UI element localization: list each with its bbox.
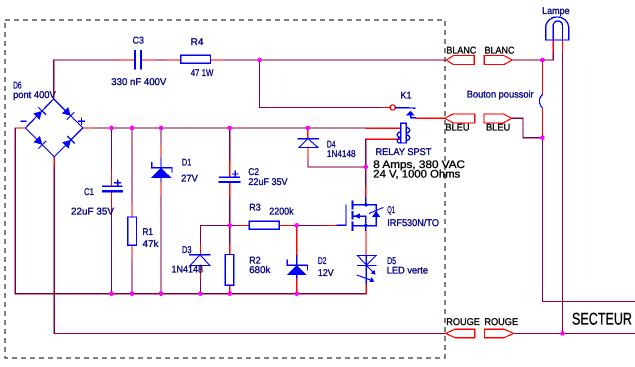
pin stub R4 left (167, 59, 181, 61)
svg-text:ROUGE: ROUGE (446, 317, 480, 328)
mosfet Q1 (337, 198, 383, 231)
LED D5 (357, 255, 377, 283)
pin stub D1 top (160, 146, 162, 158)
connector BLANC right (484, 56, 512, 65)
svg-text:12V: 12V (318, 268, 334, 279)
dashed enclosure border (5, 20, 445, 358)
bridge plus sign (79, 118, 85, 124)
wire lamp right pin down to ROUGE net (562, 52, 564, 333)
svg-text:Lampe: Lampe (542, 6, 570, 17)
capacitor C3 plates (135, 51, 141, 69)
svg-text:27V: 27V (181, 174, 198, 185)
wire D3 lower (199, 278, 201, 294)
push button arc (539, 95, 542, 108)
pin stub bridge top (53, 91, 55, 99)
svg-text:1N4148: 1N4148 (327, 149, 356, 160)
wire R1 branch lower (131, 259, 133, 294)
svg-text:BLANC: BLANC (485, 46, 515, 57)
wire relay bottom to Q1 drain (365, 139, 367, 186)
wire BLANC2 to lamp (511, 59, 553, 61)
bridge diode bottom-right (apex to right vertex) (62, 136, 74, 148)
zener diode D2 (287, 256, 308, 279)
pin stub D1 bottom (160, 182, 162, 196)
svg-text:1N4148: 1N4148 (172, 265, 204, 276)
pin stub C1 top (111, 170, 113, 186)
bridge diode bottom-left (apex to bottom vertex) (33, 136, 45, 148)
svg-text:2200k: 2200k (269, 206, 293, 217)
pin stub D4 top (307, 128, 309, 139)
svg-text:D3: D3 (182, 245, 192, 256)
svg-text:22uF 35V: 22uF 35V (248, 177, 288, 188)
pin stub R2 top (229, 246, 231, 255)
pin stub lamp right (562, 40, 564, 52)
pin stub Q1 source to D5 (365, 231, 367, 256)
pin stub Q1 gate (327, 224, 337, 226)
wire top net: bridge top to C3 (54, 60, 122, 91)
pin stub R3 left (239, 224, 250, 226)
bridge diode top-right (apex to right vertex) (62, 107, 74, 119)
zener diode D1 (151, 158, 172, 182)
svg-text:RELAY SPST: RELAY SPST (376, 147, 432, 158)
pin stub relay top (366, 127, 401, 129)
svg-text:LED verte: LED verte (387, 265, 428, 276)
junction rail R2 (227, 291, 232, 296)
resistor R2 box (225, 255, 234, 286)
wire lamp left pin lower (552, 52, 554, 60)
resistor R1 box (128, 217, 137, 245)
pin stub D4 bottom (307, 147, 309, 158)
junction bus C1 (109, 126, 114, 131)
junction rail D3 (198, 291, 203, 296)
pin stub R3 right (279, 224, 292, 226)
svg-text:D2: D2 (318, 256, 327, 267)
pin stub D2 bottom (296, 277, 298, 294)
pin stub R2 bottom (229, 285, 231, 294)
pin stub K1 left (381, 107, 390, 109)
bridge diode top-left (apex to top vertex) (33, 108, 45, 120)
junction D4 drain net (364, 165, 369, 170)
svg-text:680k: 680k (249, 265, 270, 276)
wire junction to D3 (200, 225, 229, 245)
wire positive bus (93, 127, 366, 129)
pin stub C2 bottom (229, 183, 231, 198)
wire C1 branch upper (111, 128, 113, 170)
svg-text:SECTEUR: SECTEUR (572, 310, 632, 329)
svg-text:22uF 35V: 22uF 35V (71, 207, 115, 218)
junction bus R1 (130, 126, 135, 131)
junction rail R1 (130, 291, 135, 296)
wire C3 to R4 (154, 59, 167, 61)
pin stub Q1 drain (365, 186, 367, 198)
svg-text:47k: 47k (143, 239, 159, 250)
wire R3 left stub dark (230, 224, 239, 226)
diode D3 (1N4148 outline) (190, 255, 210, 265)
pin stub D2 top (296, 225, 298, 255)
connector BLEU left (445, 114, 475, 123)
wire D1 branch upper (160, 128, 162, 146)
wire R4 to BLANC connector (224, 59, 447, 61)
junction bus D4 (306, 126, 311, 131)
junction bus D1 (159, 126, 164, 131)
junction rail D1 (159, 291, 164, 296)
svg-text:47 1W: 47 1W (191, 68, 214, 79)
svg-text:K1: K1 (401, 91, 412, 102)
bridge minus sign (21, 120, 26, 122)
svg-text:R1: R1 (143, 227, 154, 238)
bridge rectifier D6 diamond (21, 99, 85, 157)
svg-text:Bouton poussoir: Bouton poussoir (467, 90, 535, 101)
svg-text:BLEU: BLEU (486, 123, 510, 134)
wire R3 right to gate (292, 224, 327, 226)
pin stub lamp left (552, 40, 554, 52)
svg-text:C3: C3 (133, 36, 144, 47)
pin stub C3 right (142, 59, 154, 61)
junction rail C1 (109, 291, 114, 296)
junction rail D2 (295, 291, 300, 296)
wire R1 branch upper (131, 128, 133, 204)
junction lamp / button (540, 58, 545, 63)
resistor R4 box (181, 55, 211, 63)
pin stub bridge bottom (53, 157, 55, 166)
wire C1 branch lower (111, 208, 113, 294)
junction bus C2 (227, 126, 232, 131)
pin stub R1 top (131, 204, 133, 217)
wire BLEU2 to button junction (512, 118, 543, 138)
wire C2 branch upper (229, 128, 231, 162)
lamp symbol (546, 17, 569, 40)
svg-text:C1: C1 (84, 187, 94, 198)
wire bridge bottom to ROUGE (54, 166, 445, 333)
pin stub button bottom (541, 108, 543, 138)
svg-text:ROUGE: ROUGE (484, 317, 518, 328)
junction top rail / K1 branch (257, 58, 262, 63)
Q1 body diode (366, 205, 376, 211)
pin stub R4 right (211, 59, 224, 61)
pin stub C3 left (122, 59, 134, 61)
pin stub button top (541, 60, 543, 95)
svg-text:Q1: Q1 (387, 205, 395, 216)
wire C2 to R3 junction (229, 198, 231, 246)
junction R3 right D2 (295, 223, 300, 228)
wire button junction down to secteur (542, 138, 635, 302)
svg-text:pont 400V: pont 400V (13, 90, 56, 101)
wire junction down to K1 contact (260, 60, 382, 108)
pin stub D5 bottom (365, 283, 367, 293)
svg-text:D1: D1 (182, 158, 191, 169)
resistor R3 box (249, 221, 279, 229)
svg-text:BLEU: BLEU (445, 123, 469, 134)
connector BLANC left (446, 56, 474, 65)
svg-text:R3: R3 (249, 203, 260, 214)
connector BLEU right (484, 114, 512, 123)
svg-text:24 V, 1000 Ohms: 24 V, 1000 Ohms (373, 169, 461, 181)
wire D4 bottom L to drain net (308, 159, 366, 168)
junction button bleu (540, 136, 545, 141)
wire bridge minus down left side (15, 128, 366, 294)
relay coil (397, 123, 409, 143)
junction R3 left C2 (227, 223, 232, 228)
junction lamp rouge (560, 331, 565, 336)
pin stub K1 right to BLEU (416, 117, 445, 119)
connector ROUGE right (484, 329, 513, 338)
connector ROUGE left (446, 329, 475, 338)
capacitor C2 (electrolytic) (220, 171, 240, 182)
svg-text:IRF530N/TO: IRF530N/TO (387, 218, 439, 229)
pin stub R1 bottom (131, 245, 133, 258)
svg-text:R4: R4 (191, 37, 204, 48)
pin stub C1 bottom (111, 192, 113, 208)
pin stub relay bottom (367, 138, 401, 140)
svg-text:330 nF 400V: 330 nF 400V (111, 77, 167, 88)
pin stub D3 top (199, 246, 201, 255)
wire ROUGE2 to secteur (514, 332, 635, 334)
wire D1 branch lower (160, 196, 162, 294)
pin stub bridge left (15, 127, 25, 129)
pin stub C2 top (229, 162, 231, 177)
pin stub D3 bottom (199, 265, 201, 278)
relay K1 contact (390, 105, 415, 118)
svg-text:BLANC: BLANC (446, 46, 476, 57)
capacitor C1 (electrolytic) (103, 180, 122, 191)
pin stub bridge right (83, 127, 94, 129)
diode D4 (1N4148 outline) (298, 139, 318, 148)
